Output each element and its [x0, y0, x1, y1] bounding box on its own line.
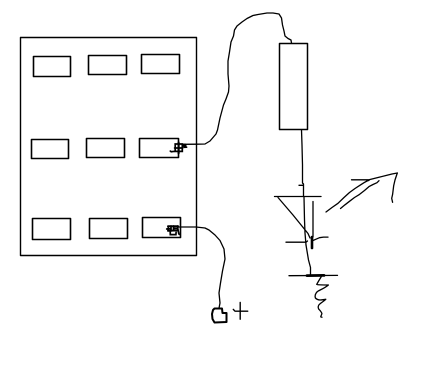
- battery B1: [280, 44, 308, 130]
- output curve from node: [313, 237, 328, 240]
- junction scribble J1 on cell B3: [170, 143, 186, 154]
- wire W2: battery bottom down to diode: [302, 130, 304, 196]
- arrow annotation top bar: [352, 173, 398, 180]
- diode D1 hypotenuse: [278, 198, 310, 239]
- panel cell A3: [142, 55, 180, 74]
- wire W1: J1 to battery top: [183, 13, 292, 144]
- ground bar thick overdraw: [307, 274, 324, 277]
- arrow annotation line A: [326, 180, 369, 212]
- plus sign: [233, 309, 247, 311]
- panel cell A2: [89, 56, 127, 75]
- panel cell A1: [34, 57, 71, 77]
- arrow annotation head barb: [392, 173, 398, 202]
- tick node on wire W2: [299, 184, 303, 186]
- wire through diode: [304, 197, 306, 245]
- panel cell B2: [87, 139, 125, 158]
- diode D1 right side vertical: [312, 202, 314, 238]
- connector plug: [212, 309, 227, 323]
- panel cell B1: [32, 140, 69, 159]
- panel cell C2: [90, 219, 128, 239]
- panel cell C3: [143, 218, 181, 238]
- arrow annotation line C: [341, 181, 380, 209]
- panel cell B3: [140, 139, 179, 158]
- node thick bar: [311, 237, 314, 248]
- ground bar: [289, 274, 338, 276]
- panel cell C1: [33, 219, 71, 240]
- diode D1 triangle top bar: [275, 196, 322, 198]
- diode D1 cathode bar: [286, 241, 308, 242]
- wire W3: J2 to connector: [179, 227, 225, 308]
- inductor coil L1: [315, 277, 328, 318]
- solar panel frame: [21, 38, 197, 256]
- junction scribble J2 on cell C3: [167, 226, 180, 235]
- wire down to ground: [306, 245, 311, 275]
